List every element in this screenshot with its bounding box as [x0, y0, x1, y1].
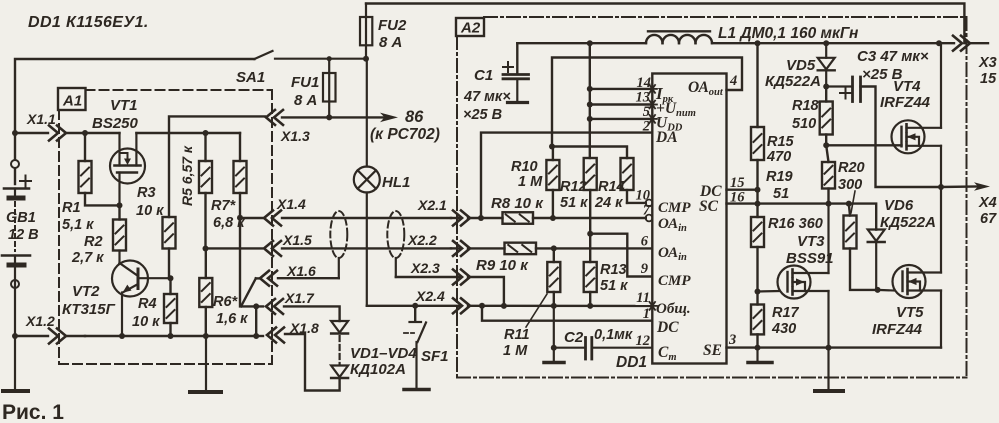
cable screen oval left [330, 211, 347, 278]
node R17 SE junction [755, 345, 761, 351]
node FU1 X1.3 junction [326, 114, 332, 120]
wire X1.4 row to X2.1 [240, 217, 451, 219]
svg-text:3: 3 [728, 332, 736, 348]
node battery X1.1 junction [12, 130, 18, 136]
wire X1.6 diagonal from R7 corner [241, 278, 260, 306]
IC label OAout [688, 79, 724, 98]
svg-text:R7*: R7* [211, 198, 237, 214]
resistor R4 10k [132, 278, 177, 336]
capacitor C3 47uF [826, 48, 941, 187]
svg-text:×25 В: ×25 В [463, 107, 502, 123]
svg-text:51 к: 51 к [560, 195, 588, 211]
svg-text:X2.4: X2.4 [415, 288, 445, 304]
svg-text:1 М: 1 М [503, 343, 528, 359]
node feedback R10 R14 junction [549, 144, 555, 150]
resistor R14 24k [594, 158, 634, 211]
svg-text:Рис. 1: Рис. 1 [2, 401, 64, 423]
svg-text:470: 470 [766, 149, 791, 165]
svg-text:X2.1: X2.1 [417, 197, 447, 213]
wire X2.1 row to pin 7 [468, 215, 646, 221]
svg-text:X1.6: X1.6 [286, 263, 316, 279]
resistor R10 1M [511, 147, 559, 219]
svg-text:R8 10 к: R8 10 к [491, 195, 544, 212]
svg-text:R3: R3 [137, 185, 156, 201]
svg-text:R4: R4 [138, 296, 157, 312]
svg-text:R5 6,57 к: R5 6,57 к [179, 145, 195, 206]
pin 16 label [730, 190, 745, 206]
svg-text:IRFZ44: IRFZ44 [872, 321, 923, 338]
pin 11 star [648, 302, 657, 310]
svg-text:R20: R20 [838, 160, 865, 176]
svg-text:VT4: VT4 [893, 78, 921, 95]
node R19 pin16 VT3-drain junction [826, 201, 832, 207]
arrow X4 output [974, 182, 997, 227]
node rail R15 junction [755, 40, 761, 46]
svg-text:10 к: 10 к [132, 314, 160, 330]
pin 7 label [643, 203, 651, 219]
wire supply rail [517, 42, 954, 44]
wire X1.3 row to 86 arrow [282, 116, 385, 118]
resistor R13 51k [584, 234, 628, 306]
svg-text:SF1: SF1 [421, 348, 449, 365]
diode VD6 KD522A [868, 197, 936, 290]
ground (A1 common) [190, 390, 221, 394]
resistor R15 470 [751, 43, 795, 190]
svg-text:X2.3: X2.3 [410, 260, 440, 276]
wire X1.7 to VD1 [284, 306, 340, 321]
svg-text:67: 67 [980, 211, 997, 227]
svg-text:С2: С2 [564, 329, 584, 346]
pin 15 label [730, 175, 745, 191]
svg-text:9: 9 [641, 261, 648, 277]
svg-text:R6*: R6* [213, 294, 239, 310]
switch SF1 [404, 306, 449, 388]
svg-text:DA: DA [655, 129, 678, 146]
svg-text:300: 300 [838, 177, 862, 193]
IC label DC left [656, 319, 679, 336]
node R12 R13 pin9 junction [587, 231, 593, 237]
svg-text:0,1мк: 0,1мк [594, 327, 633, 343]
IC label +Upit [656, 100, 696, 119]
wire R7 bottom to X1.7 [240, 218, 263, 307]
svg-text:Общ.: Общ. [656, 301, 691, 317]
wire battery negative to ground bar [14, 336, 16, 390]
svg-text:VT2: VT2 [72, 283, 100, 300]
IC label Obsh [656, 301, 691, 317]
connector X1.6 [260, 263, 316, 286]
svg-text:24 к: 24 к [594, 195, 623, 211]
pin 9 label [641, 261, 648, 277]
svg-text:BS250: BS250 [92, 115, 139, 132]
pin 13 label [636, 90, 657, 109]
svg-text:R15: R15 [767, 134, 795, 150]
svg-text:X1.3: X1.3 [280, 128, 310, 144]
svg-text:1,6 к: 1,6 к [216, 311, 248, 327]
svg-text:1 М: 1 М [518, 174, 543, 190]
capacitor C1 47uF [463, 43, 529, 123]
wire VT4 gate line [826, 144, 901, 146]
svg-text:R19: R19 [766, 169, 793, 185]
svg-text:КД102А: КД102А [350, 361, 406, 378]
node R15 pin16 junction [755, 190, 761, 207]
resistor R17 430 [751, 292, 800, 348]
svg-text:X3: X3 [978, 55, 997, 71]
svg-text:X1.4: X1.4 [276, 196, 306, 212]
wire X2.3 stub to common [468, 277, 504, 306]
connector X1.1 [15, 111, 85, 141]
resistor R12 51k [560, 158, 597, 234]
svg-text:КД522А: КД522А [880, 214, 936, 231]
svg-text:R10: R10 [511, 159, 538, 175]
switch SA1 [236, 51, 366, 86]
svg-text:С3 47 мк×: С3 47 мк× [857, 48, 929, 65]
connector X2.2 [407, 232, 470, 256]
svg-text:X1.5: X1.5 [282, 232, 312, 248]
connector X1.8 [267, 320, 319, 343]
battery GB1 12V [2, 160, 39, 336]
transistor VT4 IRFZ44 [880, 43, 941, 187]
ground (SF1) [404, 388, 429, 392]
node X1.7 stub junction [253, 333, 259, 339]
resistor R7* 6.8k [211, 133, 247, 231]
IC label SC right [699, 198, 719, 215]
ground (battery) [3, 389, 28, 393]
transistor VT5 IRFZ44 [872, 187, 941, 348]
svg-text:С1: С1 [474, 67, 493, 84]
node R18 R19 VT4-gate junction [823, 142, 829, 148]
svg-text:86: 86 [405, 108, 424, 126]
svg-text:R12: R12 [560, 179, 587, 195]
svg-text:1: 1 [643, 306, 650, 322]
svg-text:КТ315Г: КТ315Г [62, 301, 116, 318]
connector X1.2 [15, 313, 85, 344]
svg-text:L1 ДМ0,1 160 мкГн: L1 ДМ0,1 160 мкГн [718, 25, 859, 42]
ground (R17) [748, 361, 772, 365]
title text DD1 type [28, 14, 149, 31]
svg-text:10 к: 10 к [136, 203, 164, 219]
resistor R19 51 [766, 145, 835, 203]
pin 14 label [637, 75, 657, 93]
svg-text:КД522А: КД522А [765, 73, 821, 90]
pin 4 label [729, 73, 737, 89]
resistor R2 2.7k [71, 205, 126, 266]
svg-text:IRFZ44: IRFZ44 [880, 94, 931, 111]
node FU1 top junction [327, 56, 332, 61]
svg-text:СМР: СМР [658, 200, 691, 216]
svg-text:2,7 к: 2,7 к [71, 250, 104, 266]
wire pin 15 [727, 188, 759, 190]
IC label Ct [658, 344, 677, 363]
transistor VT1 BS250 [92, 97, 145, 205]
resistor R1 5.1k [62, 133, 120, 233]
cable screen oval right [387, 211, 404, 277]
svg-text:SC: SC [699, 198, 719, 215]
ground (main) [815, 389, 843, 393]
svg-text:DC: DC [656, 319, 679, 336]
pin 3 label [728, 332, 736, 348]
diode VD5 KD522A [765, 43, 835, 90]
connector X1.7 [266, 290, 315, 314]
svg-text:5,1 к: 5,1 к [62, 217, 94, 233]
svg-text:X1.2: X1.2 [25, 313, 55, 329]
svg-text:X4: X4 [978, 195, 997, 211]
svg-text:DD1 К1156ЕУ1.: DD1 К1156ЕУ1. [28, 14, 149, 31]
pin 10 inversion circle [646, 200, 653, 207]
wire pin 16 row [727, 204, 877, 230]
resistor R3 10k [136, 116, 265, 278]
wire VT1 drain row to R5 R7 [136, 130, 240, 136]
wire R14 to pin 10 [627, 202, 646, 204]
ground stem (main) [827, 348, 829, 390]
connector X3 output [953, 36, 997, 87]
wire DC branch pin 1 [482, 306, 652, 321]
IC label OAin 6 [658, 245, 687, 263]
svg-text:HL1: HL1 [382, 174, 410, 191]
node R4 bottom junction [168, 333, 174, 339]
IC label DC right [699, 183, 722, 200]
wire X1.5 row to X2.2 [282, 247, 451, 249]
svg-text:6: 6 [641, 234, 649, 250]
node VD6 VT5-gate junction [875, 287, 881, 293]
lamp HL1 [354, 59, 411, 306]
svg-text:51 к: 51 к [600, 278, 628, 294]
IC label Irk [655, 84, 674, 105]
resistor R8 10k [491, 195, 544, 224]
wire X1.5 row [206, 247, 263, 249]
svg-text:BSS91: BSS91 [786, 250, 834, 267]
svg-text:R2: R2 [84, 234, 103, 250]
ground stub common [551, 306, 557, 362]
IC label DA [655, 129, 678, 146]
IC label CMP 9 [658, 273, 691, 289]
node R20 top junction [846, 201, 852, 207]
node rail VD5 junction [823, 40, 829, 46]
wire common row X2.4 to pin 11 [468, 303, 652, 309]
svg-text:R13: R13 [600, 262, 627, 278]
node R6 bottom junction [203, 333, 209, 339]
svg-text:А2: А2 [460, 20, 481, 37]
svg-text:R17: R17 [772, 305, 800, 321]
node VD5 R18 C3 junction [823, 84, 829, 90]
svg-text:51: 51 [773, 186, 789, 202]
diode VD4 [331, 366, 348, 379]
transistor VT2 KT315G [62, 251, 171, 337]
connector X2.3 [396, 260, 470, 285]
resistor R18 510 [792, 87, 833, 146]
svg-text:R9 10 к: R9 10 к [476, 257, 529, 274]
svg-text:DD1: DD1 [616, 354, 647, 371]
node VT2 emitter junction [119, 333, 125, 339]
node R16 R17 VT3-gate junction [755, 289, 761, 295]
fuse FU1 8A [291, 59, 336, 118]
svg-text:8 А: 8 А [379, 34, 402, 51]
connector X1.3 [266, 110, 310, 144]
svg-text:(к РС702): (к РС702) [370, 126, 440, 143]
node battery X1.2 junction [12, 333, 18, 339]
svg-text:VD6: VD6 [884, 197, 914, 214]
node R5 R6 X1.5 junction [203, 246, 209, 252]
svg-text:R11: R11 [504, 327, 530, 343]
pin 6 label [641, 234, 649, 250]
resistor R5 6.57k [179, 133, 212, 249]
svg-text:R1: R1 [62, 200, 81, 216]
node R7 X1.4 junction [237, 215, 243, 221]
connector X2.4 [367, 288, 470, 313]
node rail VT4 junction [936, 40, 942, 46]
svg-text:VD1–VD4: VD1–VD4 [350, 345, 417, 362]
ground stub below R6 [205, 336, 207, 391]
svg-text:VD5: VD5 [786, 57, 816, 74]
wire X4 output [941, 185, 978, 188]
svg-text:15: 15 [980, 71, 997, 87]
inductor L1 DM0.1 160uH [646, 25, 859, 43]
node VT3 source SE junction [826, 345, 832, 351]
node VT2 base R3 R4 X1.6 junction [168, 275, 174, 281]
IC label SE [703, 342, 722, 359]
wire X1.1 row into A1 [82, 130, 120, 136]
connector X2.1 [417, 197, 470, 226]
pin 12 label [636, 333, 651, 349]
svg-text:10: 10 [636, 188, 651, 204]
wire top line from FU2 to X3 corner [366, 4, 964, 44]
wire pin 9 branch [590, 234, 652, 277]
svg-text:VT1: VT1 [110, 97, 138, 114]
svg-text:4: 4 [729, 73, 737, 89]
svg-text:16: 16 [730, 190, 745, 206]
wire X1.2 ground row [85, 335, 263, 337]
svg-text:СМР: СМР [658, 273, 691, 289]
wire X2.2 row to pin 6 [468, 245, 652, 251]
resistor R11 1M [503, 248, 560, 359]
node output X4 junction [938, 184, 944, 190]
wire battery positive feed to SA1 [15, 59, 254, 184]
svg-text:FU2: FU2 [378, 17, 407, 34]
capacitor C2 0.1uF [554, 327, 653, 359]
wire X1.6 row to shield tail [278, 277, 339, 279]
wire pin 4 OAout to feedback rail [552, 58, 742, 147]
svg-text:SE: SE [703, 342, 722, 359]
node rail bus junction [587, 40, 593, 46]
ground (C2/common) [544, 361, 564, 365]
svg-text:12: 12 [636, 333, 651, 349]
wire bus pins 14 13 5 [587, 43, 653, 158]
wire pin 2 DA to X2.1 row [481, 133, 652, 218]
arrow to terminal 86 [370, 108, 440, 143]
node R15 pin15 junction [755, 187, 761, 193]
pin 5 label [643, 104, 657, 123]
svg-text:12 В: 12 В [8, 227, 39, 243]
svg-text:R16 360: R16 360 [768, 216, 823, 232]
resistor R16 360 [751, 204, 823, 292]
wire dashed VD2 VD3 omitted [339, 336, 341, 364]
node HL1 SF1 junction [412, 303, 418, 309]
wire pin 3 SE row [727, 346, 942, 348]
resistor R9 10k [476, 243, 536, 274]
svg-text:X1.1: X1.1 [26, 111, 56, 127]
svg-text:GB1: GB1 [6, 210, 36, 226]
pin 10 label [636, 188, 651, 204]
pin 7 inversion circle [646, 215, 653, 222]
svg-text:А1: А1 [62, 93, 82, 110]
pin 2 label [642, 119, 650, 135]
fuse FU2 8A [360, 4, 407, 60]
node R1 VT1-gate R2 junction [117, 202, 123, 208]
diode VD1 [331, 321, 348, 334]
resistor R20 300 [838, 160, 878, 290]
resistor R6* 1.6k [199, 249, 248, 337]
svg-text:R14: R14 [598, 179, 625, 195]
svg-text:VT3: VT3 [797, 233, 825, 250]
label VD1-VD4 KD102A [350, 345, 417, 378]
svg-text:X1.7: X1.7 [284, 290, 315, 306]
svg-text:R18: R18 [792, 98, 820, 114]
IC label CMP 10 [658, 200, 691, 216]
svg-text:47 мк×: 47 мк× [463, 89, 511, 105]
block frame A2 (dash-dot) [456, 17, 967, 378]
IC DD1 K1156EU1 body [616, 74, 727, 372]
block frame A1 (dashed) [58, 88, 272, 364]
pin 1 label [643, 306, 650, 322]
wire X1.7 stub to ground row [253, 303, 259, 336]
ground stub R17 [756, 348, 758, 362]
transistor VT3 BSS91 [758, 204, 834, 348]
pin 11 label [636, 290, 650, 306]
svg-text:FU1: FU1 [291, 74, 319, 91]
svg-text:11: 11 [636, 290, 650, 306]
IC label UDD [656, 115, 683, 134]
caption Рис. 1 [2, 401, 64, 423]
svg-text:X2.2: X2.2 [407, 232, 437, 248]
svg-text:510: 510 [792, 116, 816, 132]
svg-text:430: 430 [771, 321, 796, 337]
connector X1.4 [264, 196, 306, 226]
wire VD4 to X1.8 [285, 334, 340, 391]
svg-text:8 А: 8 А [294, 92, 317, 109]
svg-text:SA1: SA1 [236, 69, 265, 86]
connector X1.5 [264, 232, 312, 256]
node SA1 FU2 HL1 junction [363, 56, 369, 62]
svg-text:VT5: VT5 [896, 304, 924, 321]
wire feedback to R14 top [552, 147, 627, 159]
IC label OAin 7 [658, 216, 687, 234]
